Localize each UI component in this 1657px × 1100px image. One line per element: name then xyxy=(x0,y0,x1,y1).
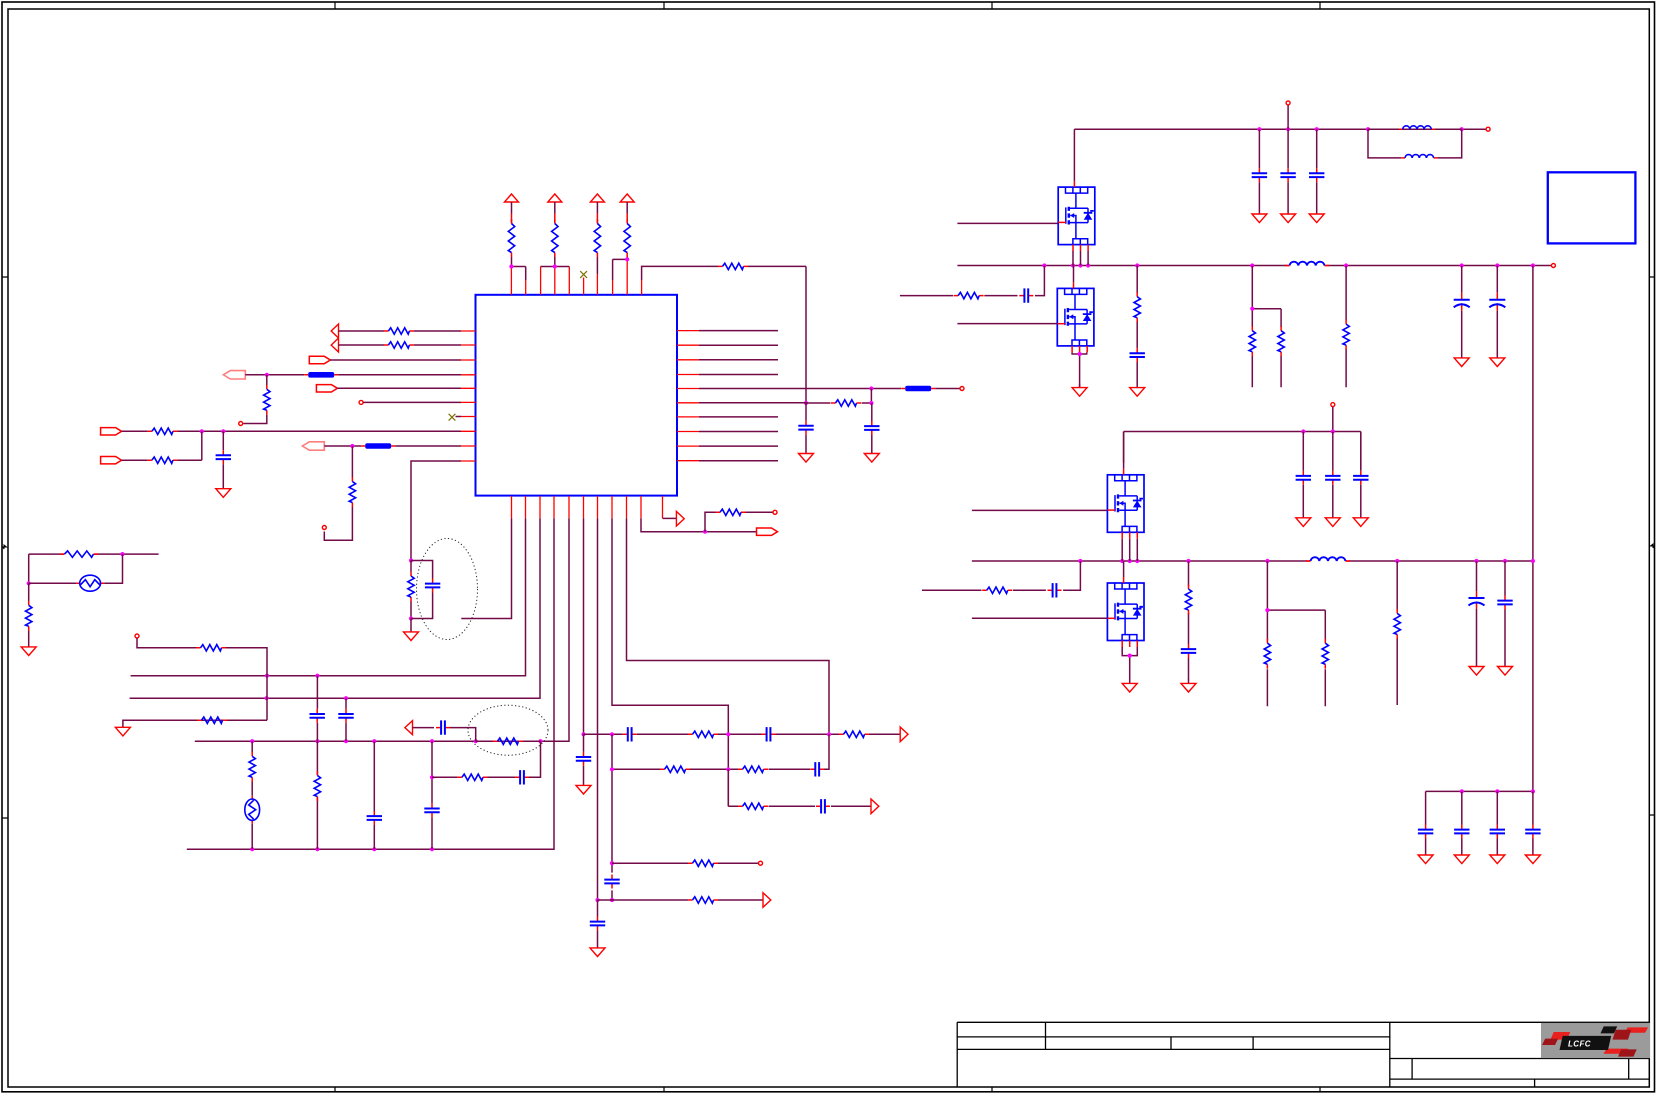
wire col612 xyxy=(611,734,613,900)
ground C25 xyxy=(1454,354,1469,367)
ground C40 xyxy=(1418,851,1433,864)
wire bus1 switch node xyxy=(957,265,1551,267)
resistor R25 xyxy=(249,752,255,782)
wire row5 net xyxy=(699,388,901,390)
wire pin569 to row4 xyxy=(195,518,569,741)
border zone ticks left xyxy=(2,277,8,818)
wire R13 wires xyxy=(410,561,412,619)
junction col612 rowB xyxy=(610,767,614,771)
wire FB1 to testpoint xyxy=(935,388,959,390)
wire flag to bead xyxy=(245,374,304,376)
testpoint circle rail right xyxy=(1486,127,1490,131)
flag row460 xyxy=(101,457,122,464)
LCFC logo black shapes xyxy=(1601,1026,1618,1033)
wire rail2 xyxy=(1124,432,1361,471)
wire IN2 xyxy=(339,344,385,346)
polar capacitor C26 xyxy=(1489,293,1505,311)
wire xtal left xyxy=(28,554,30,583)
junction flag net xyxy=(703,530,707,534)
flag row375 left xyxy=(223,371,245,379)
wire colB xyxy=(316,676,318,850)
junction bus1 a xyxy=(265,674,269,678)
resistor R22 xyxy=(196,645,226,651)
resistor R28 xyxy=(60,551,98,557)
junction col432 branch xyxy=(430,775,434,779)
capacitor C14 xyxy=(367,811,382,825)
testpoint circle bus1 end xyxy=(1551,264,1555,268)
wire C22 xyxy=(1316,129,1318,210)
wire flag446 to bead xyxy=(324,445,361,447)
wire rowA xyxy=(584,733,901,735)
wire row388 xyxy=(337,387,461,389)
wire rowE xyxy=(598,899,764,901)
wire xtal down xyxy=(28,583,30,643)
wire pin554 to bus5 xyxy=(187,518,554,849)
ground C10 xyxy=(590,944,605,957)
wire rowC xyxy=(728,769,871,806)
wire fb divider 2 xyxy=(1267,561,1325,706)
wire rc feed row xyxy=(900,266,1045,296)
oscillator Y2 xyxy=(245,796,260,824)
resistor R38 xyxy=(1322,639,1328,669)
wire row446 branch down xyxy=(351,446,353,478)
testpoint circle row5 xyxy=(960,387,964,391)
inductor L4 bus2 xyxy=(1306,557,1350,561)
junction row5 xyxy=(869,386,873,390)
junction row446 xyxy=(350,444,354,448)
wire R22 to vert xyxy=(226,648,267,720)
wire Q3 source to bus2 xyxy=(1122,539,1137,561)
wire pin662 port xyxy=(663,517,677,519)
junction rowA 829 xyxy=(827,732,831,736)
resistor R19 xyxy=(688,860,718,866)
wire colC xyxy=(345,698,347,741)
wire Q4 drain to bus2 xyxy=(1123,561,1125,577)
capacitor C24 xyxy=(1130,348,1145,362)
port arrow rowC xyxy=(871,799,879,814)
capacitor C8 xyxy=(810,762,824,776)
wire Q1 source to bus1 xyxy=(1073,251,1088,266)
wire pin612 jog xyxy=(612,518,728,806)
resistor R27 in ellipse xyxy=(493,738,523,744)
resistor R11 xyxy=(147,457,177,463)
wire gate4 xyxy=(972,617,1108,619)
capacitor C2 xyxy=(864,421,879,435)
power arrow VCC3 xyxy=(590,194,604,224)
wire row6 xyxy=(699,402,831,404)
wire pin10 up and right xyxy=(642,266,718,280)
capacitor C4 parallel xyxy=(425,579,440,593)
wire pin525 to bus1 xyxy=(131,518,526,675)
resistor R14 xyxy=(716,509,746,515)
rail2 dots xyxy=(1301,429,1305,433)
junction row6 xyxy=(869,401,873,405)
wire branch up 512 xyxy=(705,512,716,531)
port arrow rowA xyxy=(900,727,908,742)
testpoint circle rail top xyxy=(1286,101,1290,105)
ground C20 xyxy=(1252,210,1267,223)
capacitor C17 xyxy=(436,720,450,734)
power arrow VCC1 xyxy=(505,194,519,224)
resistor R15 xyxy=(688,731,718,737)
ground C30 xyxy=(1296,514,1311,527)
junction rowA start xyxy=(581,732,585,736)
wire Q3 drain xyxy=(1123,432,1125,469)
wire C40 xyxy=(1425,791,1427,851)
svg-text:LCFC: LCFC xyxy=(1568,1039,1591,1048)
testpoint circle R9 xyxy=(239,422,243,426)
wire Q2 source join xyxy=(1072,352,1087,387)
resistor R26 xyxy=(457,774,487,780)
ground row3 xyxy=(115,723,130,736)
junction rowA 728 xyxy=(726,732,730,736)
capacitor C43 bank xyxy=(1525,825,1540,839)
wire R12 to circle xyxy=(324,507,352,540)
junction bus5 dots xyxy=(250,847,254,851)
ground C35 xyxy=(1469,663,1484,676)
ground C36 xyxy=(1498,663,1513,676)
wire C36 xyxy=(1504,561,1506,663)
capacitor C22 rail xyxy=(1309,168,1324,182)
ground C42 xyxy=(1490,851,1505,864)
testpoint circle row402 xyxy=(359,400,363,404)
wire pin626 jog xyxy=(627,518,830,734)
wire long right vertical xyxy=(1532,266,1534,792)
wire R14 to circle xyxy=(746,511,773,513)
wire C25 xyxy=(1461,266,1463,355)
ground C26 xyxy=(1490,354,1505,367)
wire C32 xyxy=(1360,432,1362,515)
wire col252 xyxy=(251,741,253,849)
wire C31 xyxy=(1332,432,1334,515)
wire branch777 xyxy=(432,741,541,777)
inductor L3 bus1 xyxy=(1285,262,1329,266)
inductor L1 xyxy=(1399,126,1435,129)
resistor R4 pullup xyxy=(624,219,630,257)
capacitor C10 xyxy=(590,917,605,931)
flag net531 xyxy=(757,528,778,535)
dashed ellipse note 1 xyxy=(417,539,478,640)
wire L2 parallel loop xyxy=(1368,129,1462,158)
wire cap bank rail xyxy=(1426,790,1533,792)
wire right rows 1-4 xyxy=(699,331,778,375)
IC U1 main controller xyxy=(476,295,678,496)
junction row431 a xyxy=(200,429,204,433)
testpoint circle rowD xyxy=(759,861,763,865)
resistor R7 xyxy=(384,328,414,334)
ferrite bead FB2 xyxy=(304,372,338,378)
capacitor C12 xyxy=(310,709,325,723)
wire Q2 drain to bus1 xyxy=(1073,266,1075,283)
ground Q2 xyxy=(1072,384,1087,397)
wire IN1 xyxy=(339,330,385,332)
resistor R33 xyxy=(1278,326,1284,356)
wire C1 xyxy=(805,403,807,450)
resistor R23 xyxy=(197,717,227,723)
resistor R30 xyxy=(954,292,984,298)
capacitor C31 rail2 xyxy=(1325,471,1340,485)
wire gate1 xyxy=(957,222,1058,224)
resistor R10 xyxy=(147,428,177,434)
title block grid xyxy=(957,1022,1649,1087)
junction pin1 xyxy=(509,264,513,268)
wire rowB xyxy=(612,734,829,769)
wire FB3 to pin xyxy=(395,445,461,447)
capacitor C30 rail2 xyxy=(1296,471,1311,485)
capacitor C40 bank xyxy=(1418,825,1433,839)
ground C2 xyxy=(864,450,879,463)
wire circle to R22 xyxy=(137,638,196,648)
ground C5 xyxy=(576,781,591,794)
junction xtal top xyxy=(120,552,124,556)
flag row431 xyxy=(101,428,122,435)
wire R2 to pins xyxy=(541,257,570,267)
wire bus2 switch node xyxy=(972,560,1533,562)
junction row4 dots xyxy=(250,739,254,743)
junction rowE b xyxy=(610,898,614,902)
resistor R29 xyxy=(26,601,32,631)
capacitor C6 xyxy=(623,727,637,741)
mosfet Q2 xyxy=(1057,282,1094,352)
wire C35 xyxy=(1476,561,1478,663)
bus1 dots xyxy=(1042,263,1046,267)
wire pin583 to rowA xyxy=(583,518,585,734)
wire R8 to pin xyxy=(414,344,461,346)
wire C41 xyxy=(1461,791,1463,851)
capacitor C36 xyxy=(1497,596,1512,610)
wire row3 gnd end xyxy=(123,720,267,723)
junction bus2 b xyxy=(344,696,348,700)
capacitor C21 rail xyxy=(1280,168,1295,182)
resistor R1 pullup xyxy=(508,219,514,257)
junction rowA 612 xyxy=(610,732,614,736)
power arrow VCC2 xyxy=(548,194,562,224)
wire col1346 xyxy=(1345,266,1347,388)
flag row388 xyxy=(316,385,337,392)
capacitor C41 bank xyxy=(1454,825,1469,839)
wire R7 to pin xyxy=(414,330,461,332)
wire xtal row xyxy=(29,554,123,583)
junction col806 xyxy=(804,401,808,405)
junction Q2 source xyxy=(1078,352,1082,356)
resistor R32 xyxy=(1249,326,1255,356)
no-connect pin6 xyxy=(580,271,587,278)
resistor R6 xyxy=(831,400,861,406)
capacitor C15 xyxy=(424,803,439,817)
ground col806 xyxy=(799,450,814,463)
wire col374 xyxy=(373,741,375,849)
wire row375 branch down xyxy=(266,375,268,385)
junction pin8 xyxy=(625,257,629,261)
IC bottom pin stubs xyxy=(512,496,663,518)
no-connect row416 xyxy=(456,416,462,418)
capacitor C16 xyxy=(515,770,529,784)
wire col1397 xyxy=(1396,561,1398,705)
junction node618 xyxy=(409,616,413,620)
polar capacitor C25 xyxy=(1454,293,1470,311)
wire rowD xyxy=(612,862,758,864)
testpoint circle rail2 xyxy=(1331,403,1335,407)
ground Q4 xyxy=(1122,679,1137,692)
wire row402 xyxy=(363,401,461,403)
resistor R9 xyxy=(264,385,270,415)
resistor R37 xyxy=(1264,639,1270,669)
ground col1137 xyxy=(1130,384,1145,397)
flag row446 left xyxy=(302,442,324,450)
wire C21 xyxy=(1287,129,1289,210)
dashed ellipse note 2 xyxy=(468,705,548,755)
ground C22 xyxy=(1309,210,1324,223)
input arrow IN1/IN2 xyxy=(331,324,338,352)
wire row5-row6 link xyxy=(870,389,872,404)
port arrow rowE xyxy=(763,893,771,908)
testpoint circle R12 xyxy=(322,526,326,530)
inductor L2 xyxy=(1401,155,1437,158)
resistor R36 xyxy=(1185,585,1191,615)
wire R3 to pin xyxy=(596,257,598,274)
testpoint circle 636 xyxy=(135,634,139,638)
wire rc feed row2 xyxy=(922,561,1080,590)
power arrow VCC4 xyxy=(620,194,634,224)
wire FB2 to pin xyxy=(338,374,461,376)
resistor R31 xyxy=(1134,292,1140,322)
resistor R20 xyxy=(688,897,718,903)
wire R4 to pins xyxy=(613,257,628,280)
capacitor C42 bank xyxy=(1490,825,1505,839)
bus2 dots xyxy=(1078,559,1082,563)
capacitor C9 inline xyxy=(604,875,619,889)
ferrite bead FB1 xyxy=(901,386,935,392)
wire col1137 xyxy=(1136,266,1138,384)
wire pin511 stub net xyxy=(461,518,511,618)
wire circle to rail2 xyxy=(1332,407,1334,432)
wire L1 leads xyxy=(1368,128,1462,130)
resistor R12 xyxy=(349,477,355,507)
wire R5 to column xyxy=(748,266,806,403)
wire pin row461 down xyxy=(411,461,461,561)
wire col432 xyxy=(431,741,433,849)
capacitor C3 xyxy=(216,450,231,464)
testpoint circle 512 xyxy=(773,510,777,514)
rail dots xyxy=(1257,127,1261,131)
border center arrow left xyxy=(2,545,7,549)
ground node618 xyxy=(404,628,419,641)
mosfet Q3 xyxy=(1107,469,1144,539)
wire node618 to gnd xyxy=(410,619,412,629)
wire R9 to circle xyxy=(243,415,267,424)
wire R11 to corner xyxy=(177,459,201,461)
wire pin540 to bus2 xyxy=(130,518,540,698)
wire C3 top xyxy=(222,431,224,450)
wire pin597 to rowE xyxy=(597,518,599,900)
wire C42 xyxy=(1496,791,1498,851)
wire R27 joins xyxy=(476,740,541,742)
border zone ticks right xyxy=(1649,277,1655,815)
resistor R34 xyxy=(1343,320,1349,350)
wire C2 xyxy=(871,403,873,450)
ground C41 xyxy=(1454,851,1469,864)
resistor R21 xyxy=(738,803,768,809)
wire row460 xyxy=(122,459,148,461)
wire gate3 xyxy=(972,509,1108,511)
resistor R39 xyxy=(1394,609,1400,639)
junction bus2 a xyxy=(265,696,269,700)
resistor R17 xyxy=(660,766,690,772)
ground C31 xyxy=(1325,514,1340,527)
capacitor C11 xyxy=(816,799,830,813)
resistor R18 xyxy=(738,766,768,772)
wire col1188 xyxy=(1188,561,1190,680)
wire pin641 flag net xyxy=(641,518,757,531)
resistor R2 pullup xyxy=(552,219,558,257)
junction xtal left xyxy=(27,581,31,585)
junction col612 rowD xyxy=(610,861,614,865)
ground xtal xyxy=(21,643,36,656)
capacitor C33 xyxy=(1048,583,1062,597)
wire C17 to row4 xyxy=(450,728,476,742)
IC right pin stubs xyxy=(677,331,699,461)
junction fb1 xyxy=(1250,307,1254,311)
wire R6 right xyxy=(862,402,872,404)
mosfet Q1 xyxy=(1058,181,1095,251)
mosfet Q4 xyxy=(1107,577,1144,647)
wire fb divider 1 xyxy=(1252,266,1281,388)
wire R1 to pins xyxy=(511,257,525,280)
oscillator Y1 xyxy=(76,575,104,591)
junction rowE a xyxy=(595,898,599,902)
resistor R24 xyxy=(314,771,320,801)
capacitor C7 xyxy=(762,727,776,741)
IC top pin stubs xyxy=(511,259,641,294)
capacitor C23 xyxy=(1019,288,1033,302)
LCFC logo background xyxy=(1541,1023,1650,1058)
wire C4 branch xyxy=(411,561,433,619)
resistor R3 pullup xyxy=(594,219,600,257)
junction rowB 728 xyxy=(726,767,730,771)
port arrow left 727 xyxy=(405,721,413,735)
junction bus1 b xyxy=(315,674,319,678)
capacitor C32 rail2 xyxy=(1353,471,1368,485)
LCFC logo red shapes xyxy=(1625,1027,1649,1032)
wire C30 xyxy=(1302,432,1304,515)
wire C43 xyxy=(1532,791,1534,851)
resistor R16 xyxy=(839,731,869,737)
resistor R35 xyxy=(982,587,1012,593)
module blue box xyxy=(1548,172,1636,243)
capacitor C34 xyxy=(1181,644,1196,658)
junction pin3 xyxy=(553,264,557,268)
junction node461 xyxy=(409,558,413,562)
junction row431 b xyxy=(221,429,225,433)
wire row360 xyxy=(330,359,461,361)
wire row431-row460 link xyxy=(201,431,203,460)
wire gate2 xyxy=(957,323,1057,325)
junction row375 xyxy=(265,373,269,377)
wire port to C17 xyxy=(413,727,435,729)
wire circle to rail xyxy=(1287,105,1289,129)
ferrite bead FB3 xyxy=(361,443,395,449)
ground col1188 xyxy=(1181,679,1196,692)
border center arrow right xyxy=(1651,544,1656,548)
resistor R13 xyxy=(408,572,414,602)
ground C43 xyxy=(1525,851,1540,864)
wire row431 to pin xyxy=(177,430,461,432)
ground C32 xyxy=(1353,514,1368,527)
flag row360 xyxy=(309,356,330,363)
wire right rows 7-10 xyxy=(699,417,778,461)
wire top rail xyxy=(1074,128,1485,130)
cap bank dots xyxy=(1460,789,1464,793)
